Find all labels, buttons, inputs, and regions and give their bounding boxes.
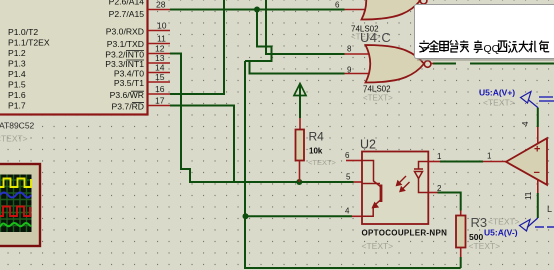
screen grid: [0, 175, 32, 233]
svg-text:−: −: [534, 167, 540, 179]
wire pin12 net: [170, 54, 354, 183]
svg-text:17: 17: [155, 96, 165, 106]
svg-text:P1.4: P1.4: [8, 69, 26, 79]
svg-text:11: 11: [157, 34, 166, 44]
resistor R3: [460, 211, 462, 216]
wire top net to pin16: [170, 0, 224, 94]
pin 15 stub: [148, 81, 171, 83]
pin 13 stub: [148, 62, 171, 64]
optocoupler U2 box: [362, 152, 428, 225]
gate2 pin8 red stub: [345, 53, 372, 55]
svg-text:<TEXT>: <TEXT>: [469, 241, 501, 251]
pin 12 stub: [148, 53, 171, 55]
svg-text:AT89C52: AT89C52: [0, 121, 35, 131]
svg-text:QQ: QQ: [484, 43, 500, 55]
pin 14 stub: [148, 72, 171, 74]
svg-text:U2: U2: [360, 138, 376, 152]
junction dot B on R4 rail: [296, 179, 302, 185]
junction dot A: [254, 7, 260, 13]
opto pin numbers left: [345, 151, 351, 216]
opto pin numbers right: [437, 152, 442, 193]
wire gate2 pin9 net: [250, 61, 345, 74]
yellow square wave: [0, 179, 31, 188]
礼: [529, 41, 537, 52]
svg-text:6: 6: [335, 1, 340, 10]
terminal arrow V+: [521, 92, 538, 108]
junction dot C: [243, 213, 249, 219]
svg-text:1: 1: [437, 152, 442, 161]
svg-text:P3.2/INT0: P3.2/INT0: [105, 50, 144, 60]
svg-text:<TEXT>: <TEXT>: [308, 158, 337, 167]
svg-text:28: 28: [156, 0, 166, 10]
wire gate2 output net: [433, 63, 456, 65]
wire opto pin1 to opamp: [440, 161, 483, 163]
overlines for active-low pin names: [126, 50, 144, 102]
pin 10 stub: [148, 30, 171, 32]
svg-text:+: +: [534, 144, 540, 156]
svg-text:<TEXT>: <TEXT>: [362, 241, 394, 251]
pin 16 stub: [148, 93, 171, 95]
pin 28 stub: [148, 9, 171, 11]
svg-text:8: 8: [347, 45, 352, 54]
svg-text:10k: 10k: [309, 147, 323, 156]
家: [460, 40, 469, 52]
svg-text:P1.1/T2EX: P1.1/T2EX: [8, 38, 50, 48]
svg-text:15: 15: [155, 72, 165, 82]
svg-text:1: 1: [487, 152, 492, 161]
NOR gate U4:C: [366, 45, 431, 83]
tooltip popup: [415, 5, 554, 61]
blue wave: [0, 193, 31, 198]
opto internal LED: [414, 162, 428, 193]
microcontroller U1 AT89C52 body: [0, 0, 148, 115]
管: [450, 40, 459, 52]
terminal arrow V-: [520, 218, 538, 231]
svg-text:P1.5: P1.5: [8, 80, 26, 90]
opto right pin stubs: [428, 162, 440, 193]
svg-text:12: 12: [155, 44, 165, 54]
wire opto pin2 to R3: [438, 193, 461, 211]
opto left pin stubs: [346, 161, 362, 217]
svg-text:P3.0/RXD: P3.0/RXD: [106, 27, 144, 37]
svg-text:P1.0/T2: P1.0/T2: [8, 27, 38, 37]
svg-text:6: 6: [345, 151, 350, 160]
resistor R4: [299, 118, 301, 130]
wire pin28 net: [170, 9, 345, 11]
gate2 pin9 red stub: [345, 73, 372, 75]
pin 17 stub: [148, 105, 171, 107]
wire top net to gate2 pin8: [266, 0, 345, 54]
svg-text:P3.1/TXD: P3.1/TXD: [107, 39, 144, 49]
gate2 output red stub: [431, 63, 433, 65]
blue label fragments right edge top: [539, 97, 554, 101]
svg-text:5: 5: [346, 173, 351, 182]
svg-text:U5:A(V+): U5:A(V+): [479, 88, 515, 98]
opto emission arrows: [397, 176, 410, 192]
大: [519, 41, 529, 52]
svg-text:P1.2: P1.2: [8, 48, 26, 58]
pin 11 stub: [148, 43, 171, 45]
svg-text:U5:A(V-): U5:A(V-): [484, 228, 518, 238]
svg-text:P3.4/T0: P3.4/T0: [114, 69, 144, 79]
安: [419, 40, 429, 52]
resistor R4 terminal arrow: [294, 84, 306, 119]
tooltip CJK text (drawn glyphs): 安全用管家 享QQ西游大礼包: [419, 40, 549, 53]
svg-text:<TEXT>: <TEXT>: [488, 217, 520, 227]
wire vertical to bottom return: [245, 61, 461, 268]
pin numbers: [155, 0, 167, 106]
opto internal NPN transistor: [362, 161, 381, 217]
red square wave: [0, 207, 30, 217]
svg-text:74LS02: 74LS02: [363, 85, 391, 94]
op-amp V+ pin wire: [537, 108, 539, 128]
西: [498, 41, 507, 51]
svg-text:14: 14: [155, 63, 165, 73]
wire opto pin4 net: [245, 215, 352, 217]
svg-text:P1.6: P1.6: [8, 90, 26, 100]
svg-text:16: 16: [155, 84, 165, 94]
chip pin names left side: [8, 27, 50, 111]
svg-text:<TEXT>: <TEXT>: [0, 134, 28, 144]
用: [440, 41, 449, 51]
pin stubs right side: [148, 10, 171, 106]
svg-text:P2.6/A14: P2.6/A14: [109, 0, 145, 7]
green sine wave: [0, 223, 31, 227]
op-amp V- pin wire: [537, 180, 539, 194]
svg-text:4: 4: [521, 121, 530, 126]
gate1 pin6 red stub: [345, 9, 369, 11]
svg-text:P3.5/T1: P3.5/T1: [114, 78, 144, 88]
svg-text:4: 4: [345, 207, 350, 216]
NOR gate U4:B (top, partially cut): [362, 0, 427, 20]
svg-text:<TEXT>: <TEXT>: [483, 98, 515, 108]
包: [539, 40, 549, 51]
svg-text:P1.3: P1.3: [8, 59, 26, 69]
svg-text:10: 10: [157, 21, 167, 31]
全: [429, 41, 439, 52]
svg-text:OPTOCOUPLER-NPN: OPTOCOUPLER-NPN: [362, 229, 448, 238]
wire gate2 output net right part: [470, 63, 554, 65]
svg-text:R4: R4: [309, 130, 325, 144]
svg-text:P1.7: P1.7: [8, 101, 26, 111]
svg-text:L: L: [547, 204, 552, 214]
svg-text:P3.6/WR: P3.6/WR: [110, 90, 144, 100]
svg-text:9: 9: [347, 65, 352, 74]
oscilloscope instrument icon: [0, 164, 40, 246]
svg-text:U4:C: U4:C: [360, 30, 391, 45]
svg-text:11: 11: [524, 191, 533, 200]
svg-text:P2.7/A15: P2.7/A15: [109, 9, 145, 19]
svg-text:<TEXT>: <TEXT>: [363, 94, 393, 103]
wire pin17 net: [170, 106, 234, 183]
享: [474, 40, 483, 52]
游: [508, 42, 517, 53]
chip pin names right side: [105, 0, 144, 112]
wire junction descender: [245, 10, 272, 62]
svg-text:P3.7/RD: P3.7/RD: [112, 102, 144, 112]
op-amp U5:A: [506, 138, 547, 185]
